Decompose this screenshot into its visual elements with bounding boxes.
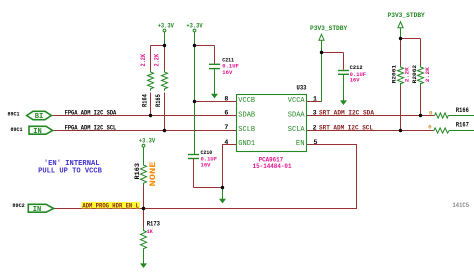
power +3.3V P1 [163, 29, 166, 45]
wire R163 lower lead to EN junction [143, 184, 145, 209]
svg-text:SCLA: SCLA [288, 126, 305, 134]
resistor R163 [141, 164, 147, 185]
svg-text:2: 2 [313, 124, 317, 131]
wire VCCB pin8 [195, 101, 237, 103]
svg-text:2.2K: 2.2K [424, 66, 431, 82]
svg-text:16V: 16V [350, 76, 360, 83]
svg-text:R167: R167 [456, 121, 469, 128]
junction R2061-SCL [399, 129, 402, 132]
svg-text:SRT_ADM_I2C_SDA: SRT_ADM_I2C_SDA [319, 110, 374, 117]
svg-text:FPGA_ADM_I2C_SDA: FPGA_ADM_I2C_SDA [65, 110, 117, 117]
junction P3V3 right [399, 37, 402, 40]
wire R173 upper lead [143, 209, 145, 228]
resistor R164 [148, 70, 154, 91]
wire P2 to C211 [195, 45, 215, 47]
junction R2062-SDA [419, 114, 422, 117]
svg-text:3: 3 [313, 110, 317, 117]
resistor R173 [141, 228, 147, 264]
svg-text:P3V3_STDBY: P3V3_STDBY [388, 12, 426, 19]
svg-text:8: 8 [224, 95, 228, 102]
junction VCCB line [193, 100, 196, 103]
svg-text:16V: 16V [222, 69, 232, 76]
svg-text:BI: BI [35, 113, 44, 121]
wire top-left P1 to R164 [151, 45, 165, 47]
svg-text:1: 1 [313, 95, 317, 102]
svg-text:R164: R164 [141, 94, 148, 107]
wire VCCA pin1 [307, 101, 322, 103]
wire GND1 pin4 to ground junction [223, 145, 237, 188]
svg-text:ADM_PROG_HDR_EN_L: ADM_PROG_HDR_EN_L [82, 202, 139, 209]
svg-text:R2061: R2061 [391, 64, 398, 83]
svg-text:PULL UP TO VCCB: PULL UP TO VCCB [38, 168, 103, 176]
svg-text:2.2K: 2.2K [154, 54, 161, 67]
wire R2061 vertical [400, 39, 402, 66]
wire SCLA pin2 to R167 [307, 130, 434, 132]
svg-text:R165: R165 [155, 94, 162, 107]
svg-text:SDAA: SDAA [288, 111, 305, 119]
port IN upper [29, 126, 53, 134]
wire FPGA_ADM_I2C_SCL horizontal [53, 130, 237, 132]
svg-text:4: 4 [224, 139, 228, 146]
wire C210 bottom to ground junction [194, 187, 223, 189]
svg-text:0: 0 [429, 109, 433, 116]
svg-text:R163: R163 [134, 163, 141, 180]
resistor R165 [162, 70, 168, 91]
resistor R167 [434, 128, 449, 133]
svg-text:7: 7 [224, 124, 228, 131]
wire R164 vertical [150, 46, 152, 72]
port IN lower [28, 204, 53, 212]
svg-text:89C1: 89C1 [8, 111, 21, 118]
ground below C211 [211, 94, 218, 99]
port BI [27, 111, 52, 119]
svg-text:SRT_ADM_I2C_SCL: SRT_ADM_I2C_SCL [319, 124, 373, 131]
junction P3V3 left [320, 51, 323, 54]
junction R164-SDA [149, 114, 152, 117]
svg-text:5: 5 [314, 139, 318, 146]
svg-text:6: 6 [224, 110, 228, 117]
wire P3V3 right horizontal [401, 38, 421, 40]
wire R2062 vertical [420, 39, 422, 66]
svg-text:15-14484-01: 15-14484-01 [253, 163, 292, 170]
wire R165 vertical [164, 46, 166, 72]
junction R165-SCL [163, 129, 166, 132]
ground below R173 [140, 263, 147, 268]
resistor R2062 [418, 65, 424, 86]
svg-text:IN: IN [33, 128, 42, 136]
wire R166 right green [448, 115, 474, 117]
svg-text:SCLB: SCLB [238, 126, 255, 134]
svg-text:FPGA_ADM_I2C_SCL: FPGA_ADM_I2C_SCL [65, 124, 117, 131]
wire EN pin5 loop [53, 145, 357, 209]
svg-text:+3.3V: +3.3V [139, 137, 155, 144]
svg-text:VCCA: VCCA [288, 97, 305, 105]
wire R167 right green [449, 130, 474, 132]
junction P2 [193, 44, 196, 47]
wire P3V3 junction to C212 [322, 52, 344, 54]
svg-text:R173: R173 [147, 221, 161, 228]
svg-text:2.2K: 2.2K [140, 54, 147, 67]
power +3.3V P3 above R163 [142, 144, 145, 164]
svg-text:EN: EN [296, 140, 305, 148]
ground below C212 [340, 100, 347, 105]
net label ADM_PROG_HDR_EN_L highlighted [81, 202, 139, 208]
svg-text:0: 0 [428, 124, 432, 131]
svg-text:U33: U33 [297, 84, 307, 91]
svg-text:IN: IN [33, 206, 42, 214]
wire P3V3 left vertical green [321, 43, 323, 102]
svg-text:141C5: 141C5 [453, 202, 470, 209]
capacitor C212 [338, 71, 349, 75]
svg-text:1K: 1K [147, 228, 154, 235]
svg-text:SDAB: SDAB [238, 111, 255, 119]
svg-text:89C1: 89C1 [11, 126, 24, 133]
svg-text:VCCB: VCCB [238, 97, 255, 105]
power +3.3V P2 [193, 29, 196, 45]
svg-text:R166: R166 [456, 107, 469, 114]
junction GND1-C210 [221, 186, 224, 189]
junction EN-L node [142, 207, 145, 210]
ground below GND1/C210 junction [222, 188, 224, 200]
wire P2 vertical green to VCCB and C210 [194, 46, 196, 155]
capacitor C211 [209, 64, 220, 68]
resistor R2061 [398, 65, 404, 86]
op-amp U33 PCA9617 body [237, 95, 307, 152]
svg-text:C212: C212 [350, 64, 363, 71]
wire FPGA_ADM_I2C_SDA horizontal [51, 115, 237, 117]
svg-text:P3V3_STDBY: P3V3_STDBY [310, 25, 347, 32]
power P3V3_STDBY right [398, 22, 403, 39]
svg-text:R2062: R2062 [411, 64, 418, 83]
wire C211 top lead [214, 46, 216, 64]
svg-text:2.2K: 2.2K [403, 66, 410, 82]
power P3V3_STDBY left [319, 34, 324, 52]
svg-text:89C2: 89C2 [12, 202, 25, 209]
resistor R166 [435, 113, 449, 118]
junction P1 [163, 44, 166, 47]
svg-text:NONE: NONE [149, 161, 158, 186]
svg-text:16V: 16V [201, 162, 211, 169]
wire SDAA pin3 to R166 [307, 115, 435, 117]
svg-text:+3.3V: +3.3V [186, 23, 202, 30]
svg-text:GND1: GND1 [238, 140, 255, 148]
wire C212 top lead [343, 53, 345, 70]
svg-text:+3.3V: +3.3V [158, 23, 174, 30]
capacitor C210 [188, 155, 199, 159]
